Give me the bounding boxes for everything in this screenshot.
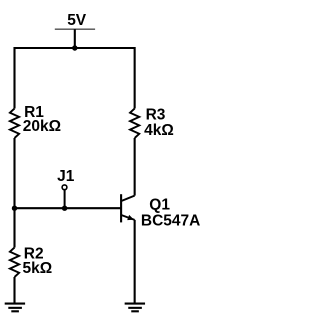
power supply VCC bar xyxy=(55,28,95,30)
transistor Q1 emitter arrowhead xyxy=(127,215,134,220)
svg-text:20kΩ: 20kΩ xyxy=(23,118,61,135)
svg-text:J1: J1 xyxy=(57,168,75,185)
resistor R3 zigzag xyxy=(130,109,139,139)
wire: R3 bottom to collector elbow xyxy=(134,138,136,196)
svg-text:4kΩ: 4kΩ xyxy=(144,122,174,139)
transistor Q1 base bar xyxy=(120,194,122,222)
wire: J1 stub down to middle rail xyxy=(64,190,66,208)
resistor R1 zigzag xyxy=(10,109,19,139)
svg-text:BC547A: BC547A xyxy=(141,212,200,229)
resistor R2 zigzag xyxy=(10,248,19,278)
node: junction dot left rail / middle rail xyxy=(12,206,17,211)
wire: R2 bottom to left ground xyxy=(13,277,15,304)
transistor Q1 emitter lead diagonal xyxy=(122,215,135,220)
connector J1 open terminal circle xyxy=(62,185,67,190)
node: junction dot on top rail xyxy=(72,45,77,50)
ground (left) xyxy=(5,304,25,312)
svg-text:5kΩ: 5kΩ xyxy=(23,260,53,277)
svg-text:Q1: Q1 xyxy=(149,196,170,213)
wire: VCC stub down to top rail xyxy=(74,29,76,48)
ground (right) xyxy=(125,304,145,312)
svg-text:5V: 5V xyxy=(67,12,87,29)
transistor Q1 collector lead diagonal xyxy=(122,196,135,201)
node: junction dot J1 / middle rail xyxy=(62,206,67,211)
wire: top rail with corners down to R1 and R3 xyxy=(15,48,135,109)
wire: left rail from R1 bottom through middle junction to R2 xyxy=(13,138,15,248)
wire: middle rail to transistor base xyxy=(15,207,122,209)
wire: emitter down to right ground xyxy=(134,220,136,304)
